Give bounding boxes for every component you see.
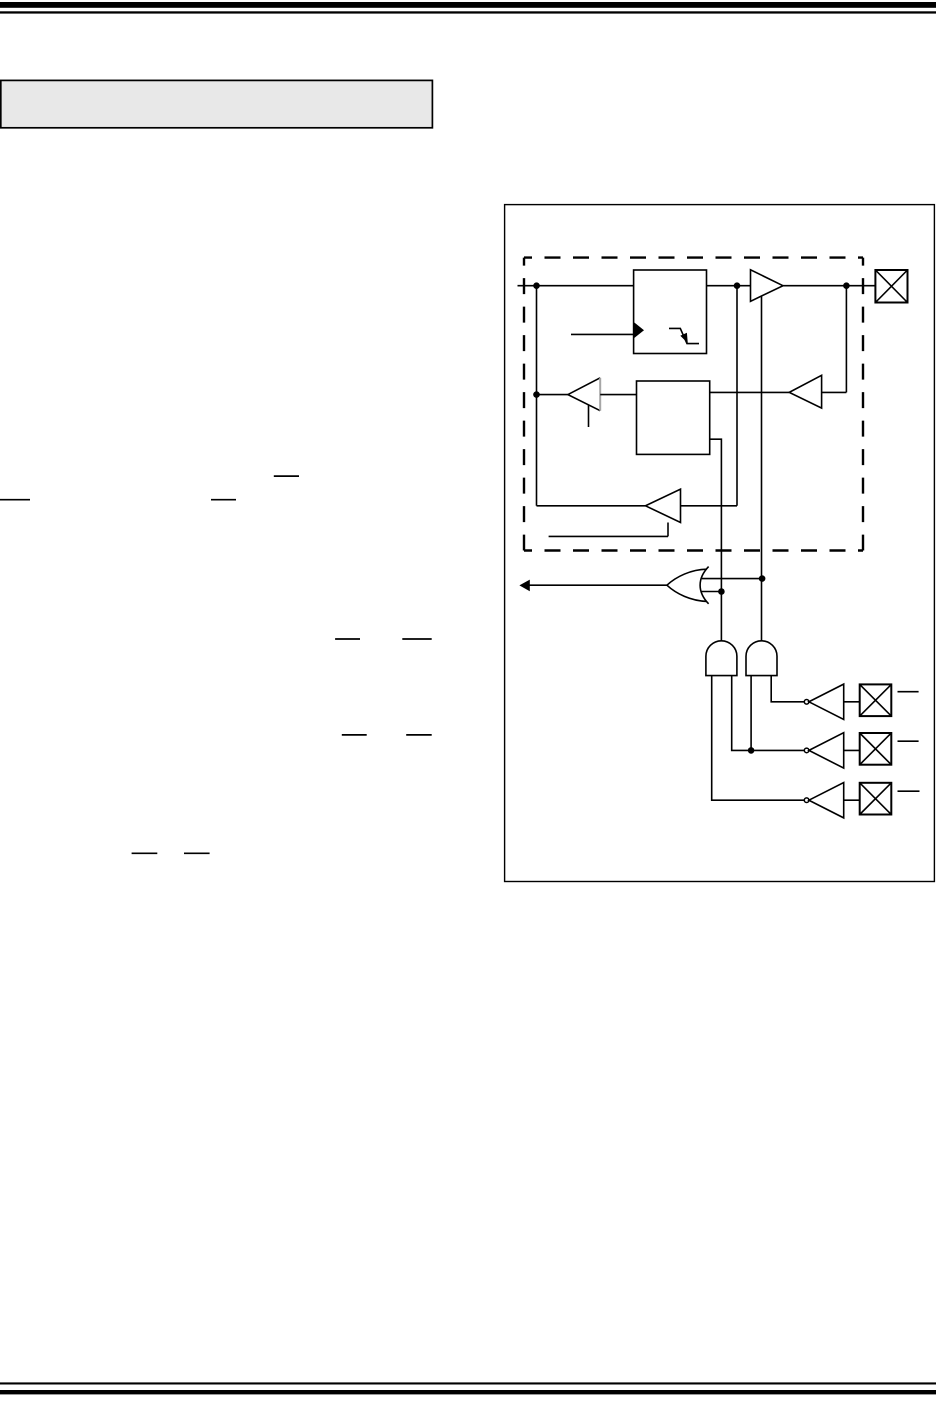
overbar D (335, 638, 360, 640)
inverter U9 (804, 783, 843, 818)
wire counter to buffer (707, 285, 751, 287)
pad P4 (860, 783, 892, 815)
interrupt arrowhead (519, 580, 529, 592)
wire U9 to pad P4 (844, 799, 860, 801)
wire buffer to pad (783, 285, 875, 287)
wire interrupt output (529, 584, 667, 586)
and-gate G3 (746, 641, 777, 676)
inverter U3 (789, 375, 821, 408)
falling edge symbol (669, 328, 699, 343)
clock input triangle (634, 322, 644, 339)
buffer U4 (568, 378, 600, 411)
node E (759, 575, 766, 582)
wire to U6 tip (537, 505, 646, 507)
overbar P3 label (898, 740, 919, 742)
node C (843, 282, 850, 289)
or-gate G1 (667, 567, 709, 604)
wire left vertical (536, 286, 538, 506)
wire G3 pin b (771, 676, 804, 702)
wire node D to U4 (537, 394, 568, 396)
figure frame (505, 205, 935, 882)
buffer U6 (646, 489, 681, 522)
section header box (1, 80, 433, 127)
inverter U8 (804, 733, 843, 768)
wire top bus (518, 285, 634, 287)
overbar P4 label (898, 790, 920, 792)
wire U7 to pad P2 (844, 701, 860, 703)
overbar I (184, 852, 210, 854)
overbar P2 label (898, 691, 919, 693)
wire U8 to pad P3 (844, 749, 860, 751)
wire G2 pin b (732, 676, 805, 751)
overbar F (342, 734, 367, 736)
buffer U2 (751, 270, 784, 302)
wire U6 enable horizontal (549, 535, 668, 537)
node F (718, 588, 725, 595)
stub U6 enable (667, 523, 669, 537)
overbar C (211, 499, 236, 501)
counter box U1 (634, 270, 707, 354)
and-gate G2 (706, 641, 737, 676)
node D (533, 391, 540, 398)
page top thin rule (0, 11, 936, 13)
dashed block boundary bottom (524, 549, 863, 551)
stub U4 enable (588, 405, 590, 428)
wire vertical from node C (845, 286, 847, 393)
page bottom thin rule (0, 1382, 936, 1384)
wire vertical buffer tap (761, 296, 763, 641)
wire U3 to latch (710, 391, 790, 393)
page bottom thick rule (0, 1390, 936, 1394)
dashed block boundary top (524, 256, 863, 258)
overbar G (406, 734, 432, 736)
pad P3 (860, 733, 892, 765)
pad P1 (875, 270, 907, 303)
node A (533, 282, 540, 289)
wire G1 input 1 (702, 578, 762, 580)
dashed block boundary left (523, 258, 525, 551)
wire G3 pin a (750, 676, 752, 751)
wire to inverter U3 (822, 391, 847, 393)
overbar B (0, 499, 30, 501)
node G (748, 747, 755, 754)
node B (734, 282, 741, 289)
overbar A (274, 475, 299, 477)
page top thick rule (0, 2, 936, 8)
wire G1 input 2 (701, 591, 721, 593)
pad P2 (860, 684, 892, 716)
inverter U7 (804, 684, 843, 719)
dashed block boundary right (862, 258, 864, 551)
overbar H (132, 852, 158, 854)
latch box U5 (637, 381, 710, 454)
wire G2 pin a (712, 676, 805, 801)
wire latch output (710, 439, 722, 641)
wire clock input (571, 333, 634, 335)
wire U6 input (681, 505, 738, 507)
wire U4 to latch (600, 394, 636, 396)
wire vertical from node B (736, 286, 738, 506)
overbar E (402, 638, 431, 640)
